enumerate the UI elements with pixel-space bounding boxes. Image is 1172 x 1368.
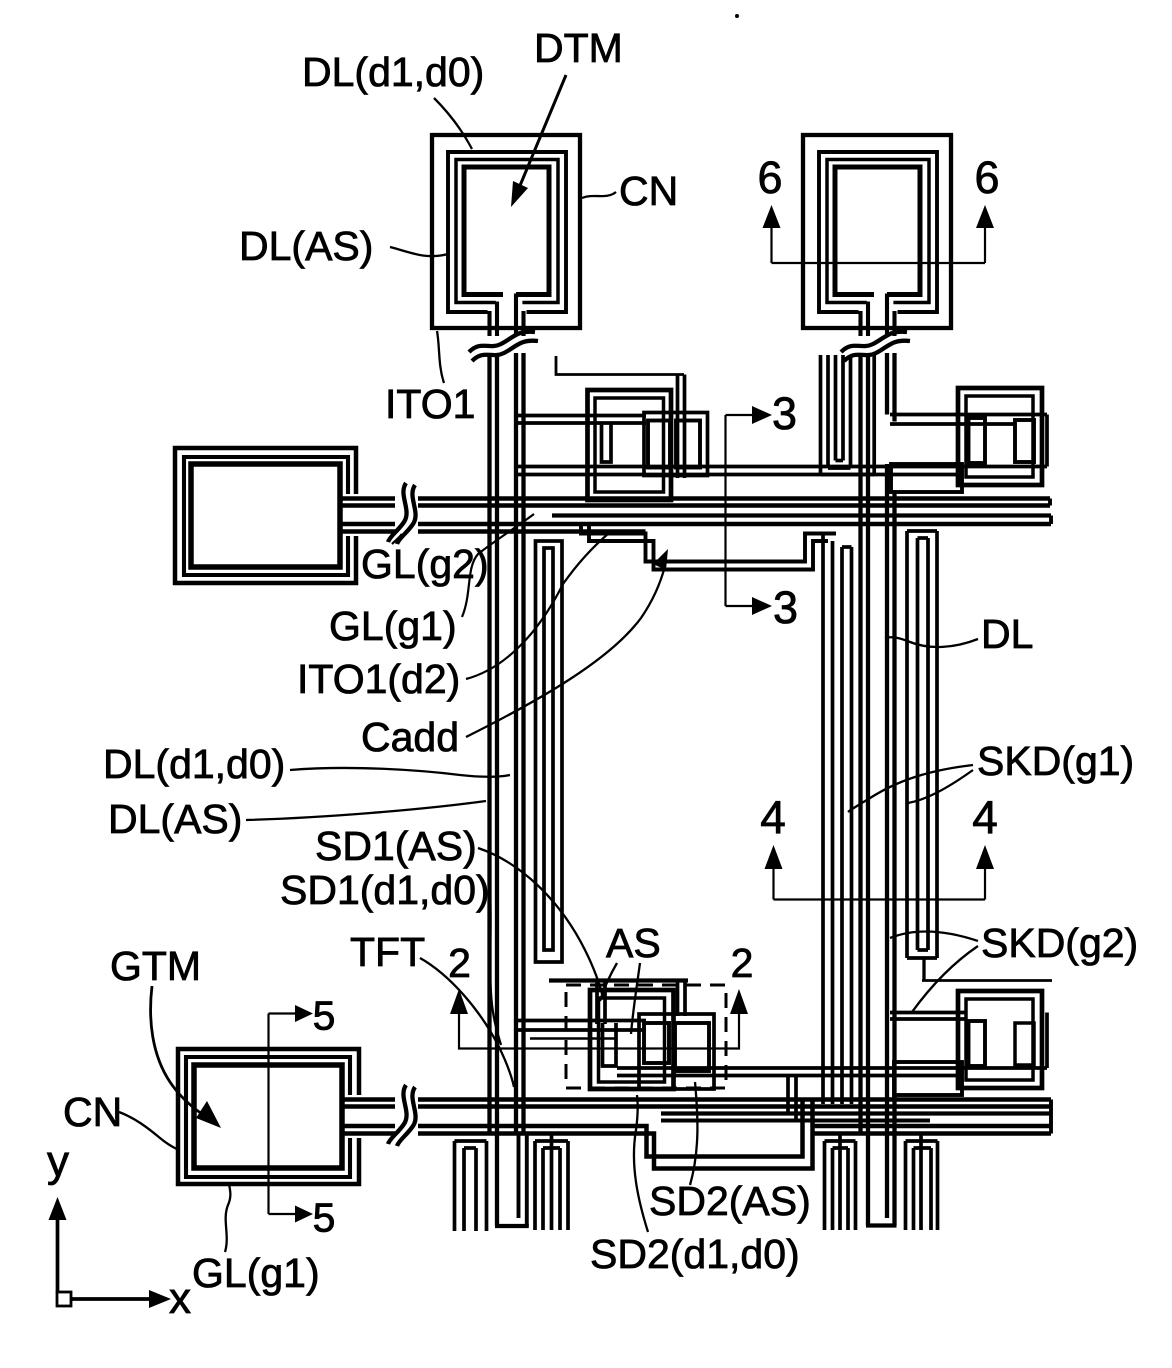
svg-text:3: 3 bbox=[773, 582, 798, 633]
ITO1(d2) shelf step wires below gate 1 bbox=[581, 524, 836, 562]
leader GL(g1) upper bbox=[462, 514, 534, 617]
gate line GL(g1) neck from GTM pad bbox=[342, 1097, 395, 1102]
DTM pad top-right inner ring bbox=[835, 167, 920, 295]
right TFT gate2 thin top wire bbox=[922, 979, 1052, 982]
break symbol on data line DL left bbox=[469, 332, 535, 352]
svg-text:SD2(AS): SD2(AS) bbox=[649, 1178, 811, 1224]
comb below gate 2 right group R bbox=[904, 1141, 908, 1230]
break symbol on gate line 1 bbox=[388, 483, 407, 542]
gate bus 2 extra wires bbox=[661, 1111, 1051, 1115]
gate terminal pad GL(g2) ring 2 bbox=[184, 457, 348, 575]
DTM pad top-left neck wires bbox=[487, 311, 491, 336]
svg-text:DL(d1,d0): DL(d1,d0) bbox=[103, 741, 285, 787]
svg-text:DL(AS): DL(AS) bbox=[108, 796, 242, 842]
TFT1 inner rect AS island bbox=[595, 398, 664, 492]
shorting comb SKD(g1) wires between gate lines bbox=[821, 534, 825, 1105]
data line bus A wires DL(d1,d0) DL(AS) bbox=[487, 353, 491, 1133]
leader DL(d1,d0) mid bbox=[290, 768, 510, 777]
gate line 2 resumed lower wires right of tray bbox=[813, 1124, 1052, 1129]
svg-text:CN: CN bbox=[619, 168, 678, 214]
right TFT gate1 finger left bbox=[969, 418, 986, 463]
section 5-5 cut line bbox=[269, 1012, 298, 1014]
svg-text:SKD(g2): SKD(g2) bbox=[981, 920, 1138, 966]
leader SD1(AS) bbox=[478, 848, 603, 998]
section 3-3 cut line bbox=[724, 415, 726, 606]
gate terminal pad GTM outer ring bbox=[178, 1049, 359, 1184]
right TFT gate1 outer rect bbox=[958, 388, 1042, 485]
section 3 arrowheads bbox=[752, 406, 772, 424]
SD ring between bus B and right TFT gate2 bbox=[894, 1062, 962, 1095]
gate line 2 bus wires upper pair bbox=[418, 1097, 1051, 1102]
svg-text:SD1(d1,d0): SD1(d1,d0) bbox=[280, 867, 490, 913]
gate terminal pad GTM ring 2 bbox=[186, 1057, 350, 1177]
leader SD2(AS) bbox=[690, 1082, 697, 1185]
gate line 2 bus wires lower pair diving into SD2 tray bbox=[418, 1098, 803, 1157]
DTM pad top-right ring 2 bbox=[819, 152, 937, 312]
gate terminal pad GTM inner ring CN bbox=[194, 1065, 342, 1168]
svg-text:SD2(d1,d0): SD2(d1,d0) bbox=[590, 1231, 800, 1277]
leader SD2(d1,d0) bbox=[634, 1095, 648, 1232]
data line bus B bottom U closure bbox=[866, 1223, 897, 1227]
svg-text:ITO1: ITO1 bbox=[385, 381, 475, 427]
right TFT gate1 end cap wire bbox=[1045, 415, 1049, 467]
gate bus 1 extra wire bbox=[552, 513, 1051, 517]
TFT1 drain square SD right bbox=[676, 421, 700, 468]
dashed AS region box bbox=[566, 985, 726, 1088]
TFT1 drain square SD bbox=[648, 421, 670, 468]
gate bus 1 right end caps bbox=[1048, 499, 1052, 506]
svg-text:6: 6 bbox=[974, 152, 999, 203]
svg-text:GL(g2): GL(g2) bbox=[361, 541, 489, 587]
DTM pad top-left inner ring DTM bbox=[464, 167, 549, 295]
comb below gate 2 left group bbox=[453, 1141, 457, 1231]
stray ink dot bbox=[735, 14, 739, 18]
svg-text:DL(d1,d0): DL(d1,d0) bbox=[302, 49, 484, 95]
gate line GL(g1) upper bus wires bbox=[418, 522, 1051, 527]
comb below gate 2 right group L bbox=[823, 1141, 827, 1230]
storage capacitor Cadd / ITO1(d2) outer ring bbox=[536, 541, 563, 962]
break symbol on data line DL right bbox=[841, 332, 907, 352]
SD ring between bus B and right TFT gate1 bbox=[891, 464, 962, 492]
leader TFT bbox=[420, 958, 514, 1087]
TFT2 drain connection pair to right bbox=[617, 1066, 1047, 1070]
TFT1 drain drop wires bbox=[676, 375, 680, 479]
section 6-6 cut line bbox=[772, 262, 986, 264]
TFT2 source connection pair from bus A bbox=[517, 1019, 646, 1023]
svg-text:TFT: TFT bbox=[350, 929, 425, 975]
leader AS pair bbox=[600, 963, 617, 1001]
TFT2 drain square SD2 right bbox=[675, 1023, 709, 1071]
svg-text:4: 4 bbox=[972, 791, 998, 843]
storage capacitor Cadd inner ring bbox=[544, 548, 553, 950]
right TFT gate1 connection pair bbox=[890, 413, 1047, 417]
DTM pad top-left ring 2 bbox=[448, 152, 566, 312]
svg-text:SKD(g1): SKD(g1) bbox=[977, 738, 1134, 784]
SKD(g2) centre drop to SD line bbox=[922, 958, 925, 981]
svg-text:GL(g1): GL(g1) bbox=[192, 1250, 320, 1296]
section 6 arrowheads bbox=[763, 205, 781, 228]
shorting comb U bottoms above gate 1 bbox=[836, 459, 844, 463]
break symbol on gate line 2 bbox=[388, 1085, 407, 1144]
right TFT gate2 finger left bbox=[969, 1021, 986, 1066]
DTM pad top-left ring 3 bbox=[456, 160, 558, 303]
svg-text:AS: AS bbox=[606, 920, 661, 966]
leader ITO1(d2) bbox=[466, 533, 609, 679]
section 2 arrowheads bbox=[450, 989, 468, 1014]
gate terminal pad GL(g2) inner ring CN bbox=[191, 464, 340, 567]
TFT2 source finger bbox=[603, 1023, 617, 1066]
svg-text:2: 2 bbox=[731, 940, 754, 986]
gate bus 2 right end cap bbox=[1049, 1100, 1053, 1134]
gate terminal pad GL(g2) outer ring bbox=[175, 448, 356, 583]
svg-text:x: x bbox=[169, 1274, 191, 1323]
svg-text:ITO1(d2): ITO1(d2) bbox=[297, 656, 460, 702]
TFT1 drain connection pair to right bbox=[517, 465, 1047, 469]
leader GL(g1) bottom bbox=[225, 1184, 230, 1252]
section 5 arrowheads bbox=[295, 1005, 313, 1022]
right TFT gate1 inner rect bbox=[966, 396, 1033, 477]
svg-text:GL(g1): GL(g1) bbox=[329, 603, 457, 649]
TFT2 drain square SD2 left bbox=[644, 1023, 669, 1063]
shorting comb SKD above gate 1 right wires bbox=[819, 355, 823, 475]
leader DL right bbox=[885, 637, 978, 647]
TFT2 third source wire bbox=[530, 1037, 617, 1039]
coordinate axes origin square bbox=[57, 1292, 71, 1306]
svg-text:3: 3 bbox=[772, 388, 797, 439]
TFT1 source finger bbox=[602, 422, 612, 462]
TFT1 SD1 ring electrode bbox=[644, 413, 708, 476]
leader GL(g2) bbox=[392, 534, 402, 544]
leader Cadd with arrowhead bbox=[466, 566, 665, 737]
gate line GL(g2) upper bus wires bbox=[418, 496, 1050, 501]
drain terminal DTM pad top-right outer ring bbox=[803, 135, 951, 328]
leader CN top bbox=[582, 192, 616, 198]
svg-text:DL(AS): DL(AS) bbox=[239, 223, 373, 269]
TFT2 bar drop wires bbox=[595, 981, 599, 1025]
DTM pad top-right neck wires bbox=[858, 311, 862, 336]
data line bus B wires DL bbox=[858, 353, 862, 1133]
TFT1 top connection ITO1 bar bbox=[556, 356, 684, 375]
right TFT gate2 outer rect bbox=[958, 991, 1042, 1088]
right TFT gate2 finger right bbox=[1015, 1023, 1034, 1065]
TFT1 gate metal outer rect bbox=[588, 390, 672, 500]
x axis bbox=[71, 1297, 151, 1301]
drain terminal DTM pad top-left outer ring ITO1 bbox=[432, 135, 580, 328]
leader DL(d1,d0) top bbox=[434, 98, 472, 149]
shorting comb SKD(g2) rings between gate lines bbox=[905, 531, 909, 958]
svg-text:SD1(AS): SD1(AS) bbox=[315, 823, 477, 869]
TFT2 step-down wires to tray bbox=[786, 1076, 790, 1114]
svg-text:CN: CN bbox=[63, 1089, 122, 1135]
leader SKD(g1) bbox=[848, 765, 973, 812]
right TFT gate2 inner rect bbox=[966, 999, 1033, 1080]
TFT2 gate metal outer rect bbox=[590, 990, 674, 1089]
TFT2 inner rect AS island bbox=[599, 998, 665, 1082]
section 4-4 cut line bbox=[774, 898, 986, 900]
DTM pad top-right ring 3 bbox=[827, 160, 929, 303]
svg-text:DL: DL bbox=[981, 611, 1033, 657]
leader CN bottom bbox=[119, 1112, 179, 1150]
leader DTM with arrowhead bbox=[519, 75, 566, 188]
svg-text:6: 6 bbox=[757, 152, 782, 203]
svg-text:Cadd: Cadd bbox=[361, 714, 459, 760]
section 2-2 cut line bbox=[459, 1013, 739, 1049]
svg-text:4: 4 bbox=[760, 791, 786, 843]
leader ITO1 bbox=[437, 331, 444, 383]
svg-text:5: 5 bbox=[313, 993, 336, 1039]
leader DL(AS) top bbox=[390, 247, 448, 256]
y axis bbox=[56, 1218, 60, 1292]
svg-text:DTM: DTM bbox=[534, 25, 623, 71]
leader SKD(g2) bbox=[890, 932, 978, 941]
comb below gate 2 centre group bbox=[533, 1141, 537, 1230]
leader SD1(d1,d0) bbox=[490, 893, 501, 1045]
svg-text:GTM: GTM bbox=[110, 943, 201, 989]
right TFT gate2 connection pair bbox=[890, 1011, 966, 1015]
section 4 arrowheads bbox=[765, 845, 783, 869]
TFT2 top bar SD1 bbox=[549, 978, 688, 982]
svg-text:5: 5 bbox=[313, 1195, 336, 1241]
right TFT gate2 end cap wire bbox=[1045, 1013, 1049, 1069]
leader DL(AS) mid bbox=[246, 801, 486, 820]
gate line GL neck from pad g2 bbox=[340, 496, 395, 501]
right TFT gate1 finger right bbox=[1015, 420, 1034, 462]
svg-text:2: 2 bbox=[448, 940, 471, 986]
TFT2 SD2 ring electrode bbox=[639, 1014, 714, 1089]
leader GTM with arrowhead bbox=[151, 986, 202, 1114]
comb below gate 2 SD1 loop bbox=[525, 1133, 529, 1226]
svg-text:y: y bbox=[47, 1137, 69, 1186]
TFT1 source connection pair from bus A bbox=[517, 414, 646, 418]
